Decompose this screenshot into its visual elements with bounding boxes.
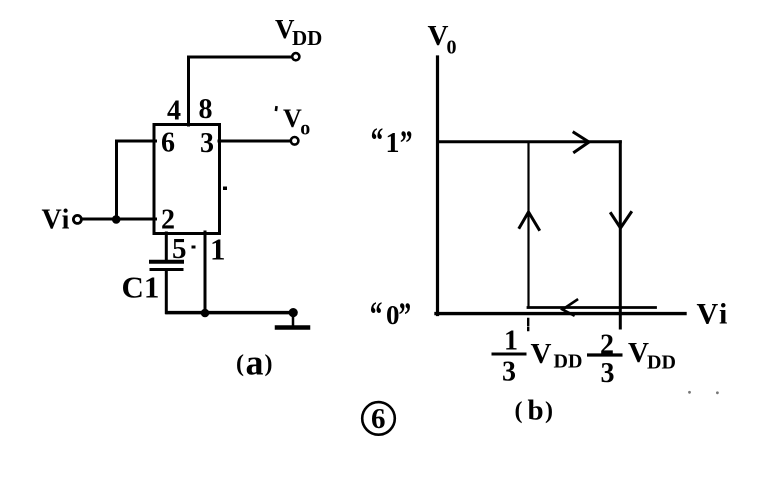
svg-text:3: 3 — [200, 128, 214, 159]
svg-text:8: 8 — [199, 94, 213, 125]
svg-text:Vi: Vi — [697, 298, 730, 331]
svg-text:3: 3 — [502, 357, 516, 388]
svg-text:“: “ — [370, 294, 383, 335]
svg-text:”: ” — [399, 294, 412, 335]
svg-text:”: ” — [400, 123, 413, 164]
svg-text:1: 1 — [504, 326, 518, 357]
svg-text:(: ( — [236, 351, 244, 377]
svg-text:6: 6 — [371, 403, 386, 435]
svg-text:2: 2 — [161, 205, 175, 236]
svg-text:0: 0 — [447, 37, 457, 59]
svg-text:a: a — [246, 343, 264, 383]
svg-text:DD: DD — [647, 351, 676, 373]
svg-text:“: “ — [371, 120, 384, 161]
svg-text:V: V — [531, 338, 552, 370]
svg-text:b: b — [528, 395, 544, 427]
svg-text:): ) — [265, 351, 273, 377]
svg-text:): ) — [545, 398, 553, 424]
svg-text:DD: DD — [292, 26, 322, 50]
svg-text:5: 5 — [172, 233, 187, 265]
svg-text:1: 1 — [386, 128, 400, 159]
svg-text:(: ( — [515, 398, 523, 424]
svg-text:6: 6 — [161, 128, 175, 159]
svg-text:o: o — [300, 118, 310, 140]
svg-text:C1: C1 — [122, 270, 160, 305]
svg-text:Vi: Vi — [42, 204, 71, 235]
svg-text:V: V — [283, 104, 302, 133]
svg-text:DD: DD — [554, 351, 583, 373]
svg-text:4: 4 — [167, 96, 181, 127]
svg-text:0: 0 — [386, 300, 400, 330]
svg-text:V: V — [628, 337, 649, 369]
svg-text:V: V — [428, 20, 449, 52]
svg-text:1: 1 — [210, 232, 226, 267]
svg-text:3: 3 — [601, 358, 615, 389]
